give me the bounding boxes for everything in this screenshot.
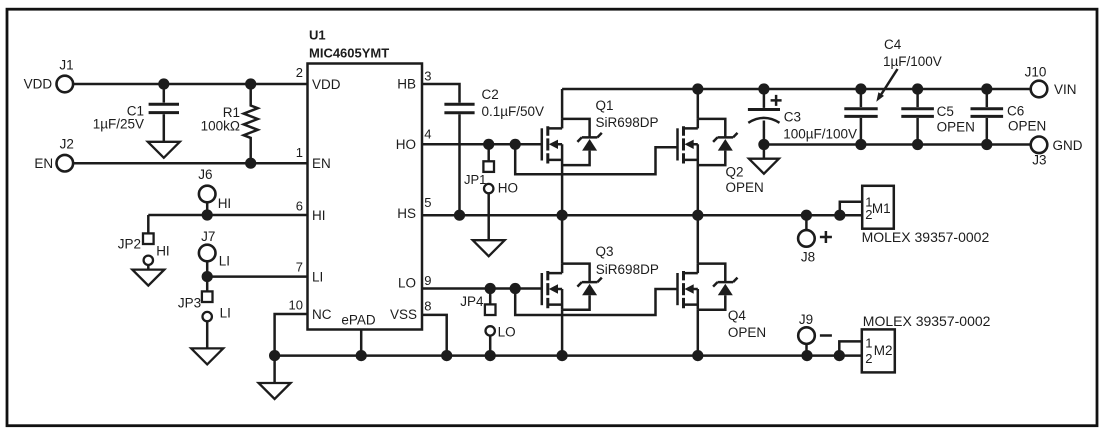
- svg-text:EN: EN: [312, 156, 331, 171]
- node C2/HS junction: [454, 210, 465, 221]
- svg-text:LI: LI: [312, 269, 323, 284]
- svg-text:HI: HI: [312, 208, 326, 223]
- arrow from C4 label to capacitor: [881, 69, 898, 96]
- wire EN net J2 to U1 pin 1: [73, 162, 307, 165]
- svg-text:ePAD: ePAD: [341, 313, 376, 328]
- ground main: [259, 383, 291, 399]
- connector M2 MOLEX: [862, 329, 895, 372]
- node C3 bottom junction: [758, 139, 769, 150]
- svg-text:8: 8: [424, 298, 431, 313]
- svg-text:MIC4605YMT: MIC4605YMT: [309, 46, 389, 61]
- svg-text:J3: J3: [1032, 152, 1046, 167]
- node HS/J8 junction: [801, 210, 812, 221]
- svg-text:4: 4: [424, 126, 431, 141]
- node ePAD junction: [356, 350, 367, 361]
- svg-text:SiR698DP: SiR698DP: [596, 262, 659, 277]
- node HS/Q1 junction: [557, 210, 568, 221]
- transistor Q4 OPEN: [678, 264, 738, 310]
- wire VDD net J1 to U1 pin 2: [73, 83, 307, 86]
- wire M2 pin 1 branch: [839, 341, 862, 355]
- ground below JP2: [132, 270, 164, 286]
- svg-text:MOLEX 39357-0002: MOLEX 39357-0002: [863, 313, 991, 329]
- node C3 top junction: [758, 83, 769, 94]
- svg-text:J7: J7: [201, 229, 215, 244]
- connector J10 VIN: [1031, 81, 1048, 98]
- wire Q2 source to HS: [697, 165, 700, 215]
- wire Q4 source to VSS rail: [697, 310, 700, 356]
- capacitor C1: [163, 84, 166, 103]
- node LI/J7 junction: [202, 271, 213, 282]
- capacitor C4 1uF/100V: [860, 89, 863, 145]
- svg-text:2: 2: [296, 65, 303, 80]
- svg-text:C6: C6: [1007, 103, 1024, 118]
- svg-text:J9: J9: [799, 312, 813, 327]
- pin LO test point of JP4: [486, 326, 495, 335]
- svg-text:J6: J6: [198, 167, 212, 182]
- node Q2 drain junction: [692, 83, 703, 94]
- svg-text:LI: LI: [219, 254, 230, 269]
- svg-text:10: 10: [289, 298, 303, 313]
- svg-text:NC: NC: [312, 307, 332, 322]
- jumper JP4: [489, 289, 492, 305]
- connector M1 MOLEX: [862, 186, 894, 229]
- wire NC pin 10 to ground rail: [275, 314, 308, 356]
- svg-text:Q2: Q2: [726, 164, 744, 179]
- svg-text:C3: C3: [784, 109, 801, 124]
- pin HI test point of JP2: [144, 256, 153, 265]
- svg-text:9: 9: [424, 273, 431, 288]
- svg-text:VSS: VSS: [390, 307, 417, 322]
- svg-text:LI: LI: [220, 306, 231, 321]
- svg-text:Q1: Q1: [596, 98, 614, 113]
- svg-text:HB: HB: [397, 77, 416, 92]
- node HO/JP1 junction: [483, 139, 494, 150]
- svg-text:5: 5: [424, 195, 431, 210]
- resistor R1: [244, 84, 258, 163]
- wire VIN top rail: [562, 88, 1031, 91]
- svg-text:1: 1: [296, 145, 303, 160]
- svg-text:7: 7: [296, 260, 303, 275]
- svg-text:OPEN: OPEN: [726, 180, 764, 195]
- node C5 top junction: [912, 83, 923, 94]
- svg-text:HO: HO: [498, 180, 518, 195]
- svg-text:C2: C2: [482, 87, 499, 102]
- node C4 top junction: [855, 83, 866, 94]
- node C4 bottom junction: [855, 139, 866, 150]
- node NC/rail junction: [269, 350, 280, 361]
- node C6 top junction: [981, 83, 992, 94]
- connector J3 GND: [1031, 137, 1048, 154]
- node JP4/rail junction: [485, 350, 496, 361]
- wire VSS pin 8 to rail: [422, 315, 447, 356]
- wire gate feed LO to Q4: [515, 289, 677, 316]
- wire Q3 drain to HS: [561, 215, 564, 263]
- svg-text:OPEN: OPEN: [728, 325, 766, 340]
- connector J7: [199, 245, 216, 262]
- ground below C3: [749, 159, 779, 174]
- svg-text:Q3: Q3: [596, 244, 614, 259]
- node HO/gate feed junction: [510, 139, 521, 150]
- svg-text:J2: J2: [60, 136, 74, 151]
- wire Q3 source to VSS rail: [561, 310, 564, 356]
- node VSS/J9 junction: [801, 350, 812, 361]
- wire GND rail: [764, 143, 1031, 146]
- node C5 bottom junction: [912, 139, 923, 150]
- wire HI net to U1 pin 6: [148, 214, 307, 217]
- wire HS pin 5 rail: [422, 214, 862, 217]
- svg-text:HI: HI: [218, 196, 232, 211]
- svg-text:C4: C4: [884, 37, 902, 52]
- svg-text:J1: J1: [59, 58, 73, 73]
- svg-text:M1: M1: [872, 201, 891, 216]
- svg-text:1: 1: [865, 336, 872, 351]
- svg-text:JP4: JP4: [460, 294, 484, 309]
- svg-text:JP2: JP2: [118, 236, 141, 251]
- pin LI test point of JP3: [203, 312, 212, 321]
- svg-text:EN: EN: [34, 156, 53, 171]
- svg-text:LO: LO: [498, 325, 516, 340]
- jumper JP3: [206, 277, 209, 292]
- svg-text:J8: J8: [801, 250, 815, 265]
- ground below JP1: [473, 240, 505, 256]
- wire HO pin 4 to Q1 gate: [422, 143, 542, 146]
- node VDD/C1 junction: [158, 78, 169, 89]
- minus sign at J9: [820, 334, 832, 337]
- node VSS/M2 junction: [834, 350, 845, 361]
- transistor Q2 OPEN: [678, 119, 738, 165]
- svg-text:0.1µF/50V: 0.1µF/50V: [482, 104, 545, 119]
- svg-text:3: 3: [424, 68, 431, 83]
- svg-text:HI: HI: [156, 243, 170, 258]
- svg-text:1µF/100V: 1µF/100V: [883, 54, 942, 69]
- node VSS junction: [441, 350, 452, 361]
- svg-text:2: 2: [865, 351, 872, 366]
- node Q3/VSS junction: [557, 350, 568, 361]
- svg-text:U1: U1: [309, 28, 326, 43]
- svg-text:C5: C5: [937, 104, 954, 119]
- connector J2: [57, 155, 74, 172]
- svg-text:MOLEX 39357-0002: MOLEX 39357-0002: [862, 229, 990, 245]
- node HS/Q2 junction: [692, 210, 703, 221]
- connector J6: [199, 186, 216, 203]
- svg-text:M2: M2: [874, 343, 893, 358]
- connector J9: [805, 344, 808, 356]
- capacitor C5 OPEN: [916, 89, 919, 145]
- wire gate feed HO to Q2: [515, 144, 677, 174]
- svg-text:1µF/25V: 1µF/25V: [93, 117, 144, 132]
- wire Q4 drain to HS: [697, 215, 700, 263]
- svg-text:JP3: JP3: [178, 296, 201, 311]
- ground below JP3: [191, 348, 223, 364]
- op-amp U1 MIC4605YMT body: [308, 64, 423, 330]
- wire HB pin 3 to C2: [422, 84, 460, 103]
- pin HO test point of JP1: [484, 184, 493, 193]
- node VDD/R1 junction: [245, 78, 256, 89]
- node HI/J6 junction: [202, 209, 213, 220]
- transistor Q3 SiR698DP: [542, 264, 602, 310]
- svg-text:GND: GND: [1053, 138, 1083, 153]
- wire JP3 to ground: [206, 322, 209, 349]
- node LO/gate feed junction: [510, 283, 521, 294]
- wire JP1 to ground: [487, 194, 490, 241]
- node C6 bottom junction: [981, 139, 992, 150]
- wire C3 to ground: [763, 145, 766, 159]
- jumper JP1: [487, 144, 490, 161]
- svg-text:OPEN: OPEN: [1008, 118, 1046, 133]
- node Q4/VSS junction: [692, 350, 703, 361]
- wire J7 to LI net: [206, 261, 209, 276]
- svg-text:VDD: VDD: [24, 77, 53, 92]
- svg-text:LO: LO: [398, 275, 416, 290]
- svg-text:VIN: VIN: [1054, 82, 1077, 97]
- wire Q1 drain to VIN rail: [561, 89, 564, 119]
- wire Q2 drain to VIN rail: [697, 89, 700, 119]
- wire VSS ground rail: [275, 354, 862, 357]
- connector J1: [57, 76, 74, 93]
- svg-text:J10: J10: [1025, 64, 1047, 79]
- svg-text:Q4: Q4: [728, 308, 747, 323]
- svg-text:HO: HO: [396, 137, 416, 152]
- svg-text:HS: HS: [397, 206, 416, 221]
- transistor Q1 SiR698DP: [542, 119, 602, 165]
- wire J6 to HI net: [206, 202, 209, 215]
- svg-text:OPEN: OPEN: [937, 119, 975, 134]
- wire Q1 source to HS: [561, 165, 564, 215]
- capacitor C3 100uF/100V polarized: [763, 89, 766, 108]
- svg-text:VDD: VDD: [312, 77, 341, 92]
- capacitor C6 OPEN: [986, 89, 989, 145]
- node LO/JP4 junction: [485, 283, 496, 294]
- connector J8: [805, 215, 808, 230]
- wire rail to main ground: [273, 356, 276, 383]
- wire JP2 to ground: [147, 265, 150, 269]
- wire JP4 test point to rail: [489, 336, 492, 356]
- node HS/M1 junction: [834, 210, 845, 221]
- wire M1 pin 1 branch: [840, 202, 862, 215]
- ground below C1: [148, 142, 180, 158]
- svg-text:SiR698DP: SiR698DP: [596, 115, 659, 130]
- svg-text:6: 6: [296, 199, 303, 214]
- node EN/R1 junction: [245, 158, 256, 169]
- svg-text:100kΩ: 100kΩ: [201, 118, 240, 133]
- wire LI net to U1 pin 7: [207, 275, 307, 278]
- capacitor C2: [444, 104, 474, 112]
- jumper JP2: [147, 215, 150, 233]
- wire ePAD to rail: [360, 330, 363, 356]
- wire LO pin 9 to Q3 gate: [422, 287, 542, 290]
- svg-text:100µF/100V: 100µF/100V: [783, 126, 857, 141]
- svg-text:JP1: JP1: [464, 172, 486, 187]
- plus sign at J8: [820, 231, 832, 243]
